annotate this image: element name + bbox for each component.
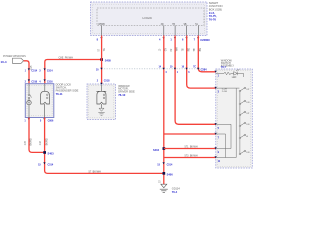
svg-text:57 BK/WH: 57 BK/WH [89, 170, 102, 173]
svg-text:C518: C518 [104, 80, 110, 83]
wire SJB pin4 down/left column to ground [160, 36, 168, 185]
svg-text:DN: DN [246, 124, 250, 126]
svg-text:C2280C: C2280C [200, 38, 210, 42]
svg-text:15: 15 [38, 163, 41, 166]
svg-text:20: 20 [96, 69, 99, 71]
svg-text:WH: WH [177, 47, 179, 51]
svg-text:S404: S404 [153, 148, 160, 152]
svg-text:4: 4 [159, 39, 161, 42]
svg-text:7B: 7B [172, 23, 175, 26]
wire SJB pin7 column [194, 36, 216, 72]
SJB label [209, 1, 223, 21]
component connector pins row at switch box top [25, 79, 54, 83]
svg-text:10: 10 [160, 48, 162, 51]
svg-text:9B: 9B [184, 23, 187, 26]
svg-text:C284: C284 [201, 69, 208, 72]
inline connector pin col1 C514 [157, 162, 173, 166]
splice S403 [43, 151, 54, 156]
switch contacts column [239, 87, 250, 155]
svg-text:C514: C514 [167, 163, 173, 166]
svg-text:4: 4 [165, 71, 167, 74]
SJB pin stubs and pin numbers [98, 23, 198, 36]
wire motor to bottom run [40, 118, 164, 174]
left box label [56, 83, 79, 96]
svg-text:DN: DN [246, 102, 250, 104]
middle box top pin [97, 80, 110, 85]
svg-text:1: 1 [170, 39, 172, 42]
svg-text:C514: C514 [31, 69, 37, 72]
svg-text:571 BK/WH: 571 BK/WH [185, 145, 198, 148]
inline connector pin left C514 [38, 162, 54, 166]
motor symbol in middle box [96, 85, 106, 104]
svg-text:5: 5 [40, 120, 42, 123]
svg-text:76-7: 76-7 [221, 65, 227, 69]
svg-text:7C: 7C [193, 67, 196, 69]
svg-text:C8E PK/WH: C8E PK/WH [59, 56, 74, 59]
switch contacts and motor inside left box [27, 84, 32, 118]
wire SJB pin1 column [171, 36, 216, 125]
svg-text:S406: S406 [167, 172, 174, 176]
wire SJB pin 8 down to window motor [99, 36, 106, 85]
svg-text:C514: C514 [48, 163, 54, 166]
svg-text:DN: DN [246, 152, 250, 154]
ground inside middle box [98, 104, 104, 115]
svg-text:1: 1 [25, 69, 27, 72]
svg-text:LOGIC: LOGIC [143, 16, 153, 20]
window motor box (driver, middle) [87, 84, 116, 120]
left box bottom pins [24, 118, 54, 122]
wire to switch pin11 [164, 154, 216, 157]
svg-text:POWER WINDOWS: POWER WINDOWS [3, 55, 26, 58]
wire bus from splice to switch box [45, 56, 102, 83]
smart junction box SJB outer [91, 2, 208, 36]
svg-text:C516: C516 [47, 80, 53, 83]
svg-text:5B: 5B [194, 48, 196, 51]
svg-text:7B: 7B [183, 48, 185, 51]
svg-text:10: 10 [170, 67, 173, 69]
svg-text:14: 14 [159, 66, 162, 69]
inline connector pins on left wires row C514 [25, 68, 54, 72]
svg-text:62: 62 [171, 48, 173, 51]
svg-text:YE: YE [104, 48, 106, 52]
svg-text:C516: C516 [31, 80, 37, 83]
middle box label [118, 84, 135, 97]
svg-text:6: 6 [182, 39, 184, 42]
svg-text:S405: S405 [105, 59, 112, 63]
svg-text:7: 7 [194, 39, 196, 42]
wire SJB pin6 column [183, 36, 216, 89]
svg-text:LED: LED [232, 77, 237, 79]
wire from feed arrow down to switch box [24, 61, 29, 84]
splice S405 [100, 58, 111, 62]
master switch label [221, 59, 235, 69]
svg-text:76-11: 76-11 [56, 92, 63, 96]
splice S406 [163, 172, 174, 176]
connector C2280C pin marks below SJB [97, 37, 211, 42]
svg-text:BK/RD: BK/RD [47, 138, 49, 145]
svg-text:76-10: 76-10 [118, 93, 126, 97]
splice S404 with wire to switch pin9 [153, 145, 216, 152]
svg-text:1: 1 [24, 120, 26, 123]
svg-text:W50B: W50B [98, 23, 105, 26]
svg-text:C15: C15 [25, 140, 27, 145]
svg-text:4: 4 [39, 80, 41, 83]
inline connector C284 dashed line [96, 66, 207, 74]
svg-text:573 BK/WH: 573 BK/WH [185, 154, 198, 157]
LED illumination circuit [216, 69, 244, 79]
svg-text:RD: RD [188, 48, 190, 52]
svg-text:BN: BN [200, 48, 202, 52]
svg-text:C514: C514 [47, 69, 53, 72]
svg-text:C806: C806 [48, 120, 54, 123]
window motor symbol in left box [41, 84, 50, 118]
svg-text:8: 8 [97, 39, 99, 42]
svg-text:76-4: 76-4 [172, 190, 178, 194]
svg-text:6: 6 [188, 72, 190, 74]
keypad feed wire from col1 to switch pin7 [164, 133, 216, 135]
SJB logic inner box [97, 8, 204, 26]
svg-text:S403: S403 [48, 152, 55, 156]
svg-text:76-76: 76-76 [209, 17, 217, 21]
svg-text:2-DR: 2-DR [222, 91, 228, 93]
master window switch box [216, 69, 253, 168]
svg-text:15: 15 [157, 163, 160, 166]
master switch left pins [215, 71, 221, 163]
svg-text:3D: 3D [161, 23, 164, 26]
svg-text:3: 3 [39, 69, 41, 72]
rotated label on feed wire [31, 65, 33, 70]
power windows feed arrow [1, 55, 27, 64]
svg-text:10-4: 10-4 [1, 60, 7, 64]
svg-text:2: 2 [25, 80, 27, 83]
svg-text:2: 2 [97, 80, 99, 83]
svg-text:16: 16 [182, 67, 185, 69]
ground G134 [160, 184, 181, 194]
ground wire label [160, 180, 162, 183]
svg-text:1: 1 [177, 72, 179, 74]
svg-text:57: 57 [99, 48, 101, 51]
svg-text:GY: GY [165, 48, 167, 52]
svg-text:C16: C16 [40, 140, 42, 145]
svg-text:57: 57 [160, 180, 162, 183]
left box wires down to splice S403 [25, 118, 45, 153]
door lock switch box (passenger) [25, 84, 54, 118]
switch interior ladder [216, 88, 240, 157]
svg-text:BK/RD: BK/RD [31, 138, 33, 145]
